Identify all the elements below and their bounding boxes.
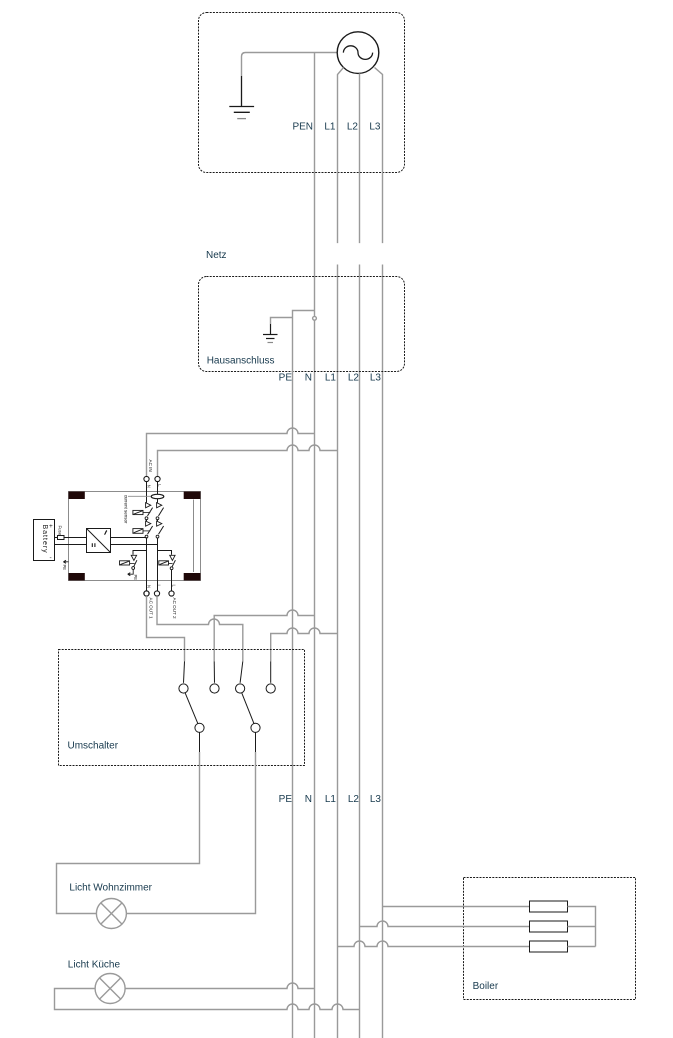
battery B1 (34, 520, 55, 561)
svg-text:N: N (305, 373, 312, 384)
svg-text:Netz: Netz (206, 250, 227, 261)
wire L1 to switch 4 (hops over PE, N) (271, 628, 338, 661)
svg-text:L: L (171, 585, 176, 588)
device U1 inverter/charger outline (69, 492, 201, 581)
wire PE earth tap (271, 318, 293, 325)
ground (source earth) (229, 76, 254, 119)
frame: Boiler box (464, 878, 636, 1000)
wire star point (568, 907, 596, 947)
switch pole 2 (251, 723, 260, 732)
wire N to switch 2 (hop over PE) (214, 610, 314, 661)
svg-text:Battery: Battery (41, 525, 48, 554)
lamp E2 Licht Küche (95, 974, 125, 1004)
ground relay triangle (131, 555, 136, 560)
svg-text:PE: PE (279, 794, 293, 805)
svg-text:N: N (305, 794, 312, 805)
ground relay tap from N (133, 551, 147, 555)
frame: Hausanschluss box (199, 277, 405, 372)
inverter AC output wires (110, 538, 158, 545)
svg-text:Boiler: Boiler (473, 981, 499, 992)
switch contact 2 (210, 684, 219, 693)
wire switch pole 2 to lamp E1 (126, 752, 255, 914)
relay coil K1 (133, 510, 143, 514)
wire L2 lower segment (359, 265, 361, 1038)
svg-text:L2: L2 (347, 121, 359, 132)
wire L1 to AC IN L (hops over PE, N) (158, 445, 338, 476)
wire L inside device (157, 482, 159, 591)
wire to AC OUT 2 terminal (171, 570, 173, 591)
svg-text:AC IN: AC IN (148, 460, 153, 472)
wire PEN earth to source (242, 53, 338, 77)
svg-text:N: N (146, 585, 151, 588)
wire L3 from source (375, 68, 383, 244)
frame: Umschalter box (59, 650, 305, 766)
inverter block (DC/AC) (87, 529, 111, 553)
wire AC OUT1 N to switch 1 (147, 596, 185, 661)
frame: Netz box (199, 13, 405, 173)
svg-text:PE: PE (279, 373, 293, 384)
AC OUT 2 relay coil K4 (159, 561, 169, 565)
svg-text:L3: L3 (370, 373, 382, 384)
AC source G1 (337, 32, 379, 74)
relay coil K2 (133, 529, 143, 534)
switch blade 1 (185, 693, 198, 724)
switch contact 3 (236, 684, 245, 693)
wire L1 to heater R3 (hops over L2, L3) (338, 941, 530, 947)
switch contact 4 (266, 684, 275, 693)
svg-text:-: - (50, 555, 52, 562)
svg-text:Licht Küche: Licht Küche (68, 960, 121, 971)
heater R2 (530, 921, 568, 932)
wire L3 to heater R1 (383, 906, 530, 908)
ground relay coil K3 (120, 561, 130, 565)
relay contact triangles row 2 (146, 521, 162, 526)
wire L2 from source (359, 73, 361, 243)
switch stub 3 (240, 661, 243, 682)
battery wires to inverter (55, 538, 87, 545)
heater R3 (530, 941, 568, 952)
switch stub 4 (270, 661, 272, 682)
node on N wire (313, 316, 317, 320)
terminal AC OUT 2 L (169, 591, 174, 596)
wire N inside device (146, 482, 148, 591)
svg-text:L2: L2 (348, 794, 360, 805)
terminal AC OUT 1 N (144, 591, 149, 596)
svg-text:Fuse: Fuse (58, 526, 63, 536)
switch contact 1 (179, 684, 188, 693)
svg-text:L2: L2 (348, 373, 360, 384)
wire N (PEN) vertical full height (314, 53, 316, 1038)
switch pivot circles row 2 (145, 535, 148, 538)
current sensor ellipse (151, 494, 164, 498)
wire N to AC IN N (hop over PE) (147, 428, 315, 477)
terminal AC OUT 1 L (154, 591, 159, 596)
switch pole 1 (195, 723, 204, 732)
AC OUT 2 relay triangle (170, 555, 175, 560)
wire N to PE branch (293, 311, 315, 1038)
switch blades row 2 (148, 526, 164, 534)
svg-text:current sensor: current sensor (124, 495, 129, 524)
ground (Hausanschluss earth) (263, 324, 278, 343)
ground relay blade and pivot (134, 560, 137, 567)
svg-text:L3: L3 (369, 121, 381, 132)
terminal AC IN N (144, 476, 149, 481)
relay contact triangles row 1 (146, 503, 162, 508)
wire L1 lower segment (337, 265, 339, 1038)
switch pivot circles row 1 (145, 517, 148, 520)
fuse F1 (58, 536, 65, 540)
svg-text:AC OUT 2: AC OUT 2 (172, 598, 177, 620)
svg-text:L3: L3 (370, 794, 382, 805)
svg-text:N: N (146, 485, 151, 488)
switch blades row 1 (148, 508, 164, 516)
wire switch pole 1 to lamp E1 (57, 752, 200, 914)
svg-text:+: + (49, 523, 53, 530)
svg-text:Licht Wohnzimmer: Licht Wohnzimmer (69, 883, 152, 894)
ground relay PE arrow (128, 569, 134, 575)
svg-text:L1: L1 (325, 373, 337, 384)
wire AC OUT1 L to switch 3 (hop) (157, 596, 243, 661)
device inner chassis line (193, 500, 195, 573)
AC OUT 2 relay blade and pivot (172, 560, 175, 567)
device PE arrow (left edge) (63, 560, 68, 563)
svg-text:PE: PE (62, 565, 67, 571)
svg-text:L1: L1 (325, 794, 337, 805)
switch pole stubs (200, 732, 256, 752)
heater R1 (530, 901, 568, 912)
wire lamp E2 to N (hop over PE) (125, 983, 314, 988)
wire L1 from source (338, 68, 344, 244)
switch stub 1 (184, 661, 185, 682)
wire lamp E2 to L2 (hops over PE, N, L1) (55, 989, 360, 1010)
lamp E1 Licht Wohnzimmer (96, 899, 126, 929)
AC OUT 2 relay tap from L (158, 551, 172, 555)
terminal AC IN L (155, 476, 160, 481)
switch blade 2 (242, 693, 254, 724)
current sensor pointer and label (128, 495, 151, 497)
svg-text:L1: L1 (324, 121, 336, 132)
wire L3 lower segment (382, 265, 384, 1038)
switch stub 2 (213, 661, 215, 682)
svg-text:PE: PE (133, 575, 138, 581)
svg-text:PEN: PEN (292, 121, 313, 132)
wire L2 to heater R2 (hop over L3) (360, 921, 530, 927)
svg-text:AC OUT 1: AC OUT 1 (148, 598, 153, 620)
device mounting corner blocks (69, 492, 201, 581)
svg-text:Hausanschluss: Hausanschluss (207, 356, 275, 367)
svg-text:Umschalter: Umschalter (68, 741, 119, 752)
